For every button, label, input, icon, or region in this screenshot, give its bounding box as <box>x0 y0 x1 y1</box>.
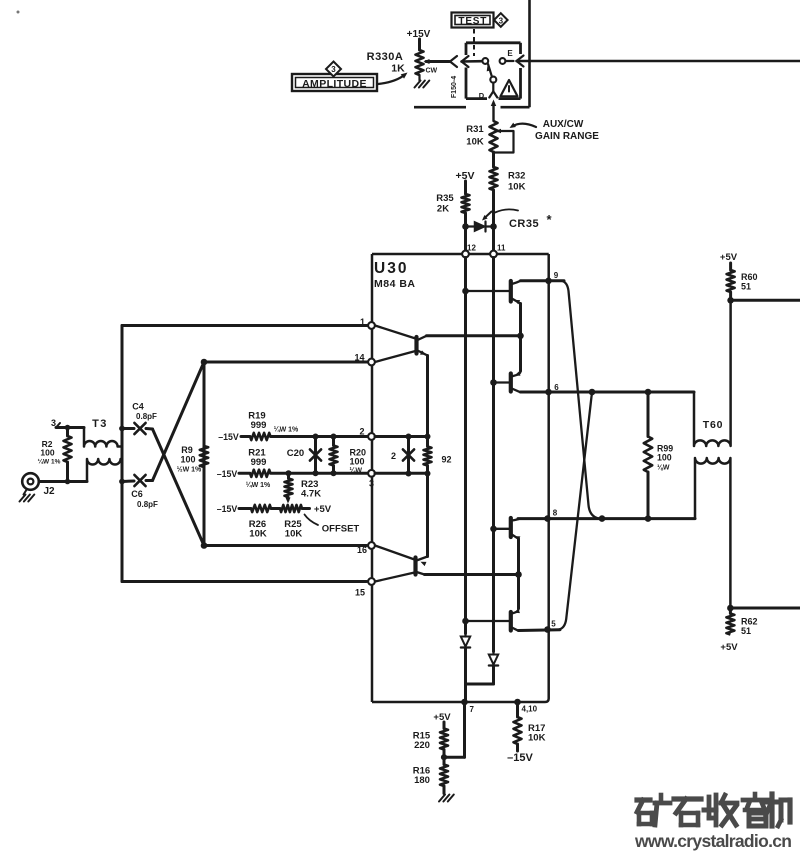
label +5V (R60) <box>720 252 738 263</box>
label R35 2K <box>436 193 454 215</box>
wire R31 to R32 <box>492 152 495 167</box>
resistor R32 <box>490 167 498 190</box>
node C20 bottom <box>313 470 319 476</box>
svg-text:0.8pF: 0.8pF <box>137 500 158 509</box>
svg-text:U30: U30 <box>374 260 408 277</box>
pin 14 <box>354 353 374 366</box>
svg-text:11: 11 <box>497 244 506 253</box>
svg-text:–15V: –15V <box>217 469 238 479</box>
wire C6 to upper fan <box>153 362 205 481</box>
svg-text:C4: C4 <box>132 402 144 412</box>
ground (R16) <box>439 795 454 802</box>
node CR35 cathode <box>490 223 497 230</box>
svg-text:+5V: +5V <box>720 252 738 263</box>
svg-text:–15V: –15V <box>507 752 533 764</box>
svg-text:999: 999 <box>251 457 267 468</box>
pin 1 <box>360 317 375 329</box>
svg-text:R330A: R330A <box>367 51 404 63</box>
label F150-4 <box>451 76 458 98</box>
label -15V (R19) <box>218 432 239 442</box>
svg-text:16: 16 <box>357 545 367 555</box>
label R9 100 1/2W 1% <box>177 445 202 474</box>
svg-text:3: 3 <box>369 479 374 489</box>
svg-text:12: 12 <box>467 244 476 253</box>
svg-text:+5V: +5V <box>720 642 738 653</box>
label +5V (R15) <box>433 712 451 723</box>
svg-text:–15V: –15V <box>217 504 238 514</box>
aux leader arrow <box>508 123 536 130</box>
svg-text:9: 9 <box>554 271 559 280</box>
wire +15V to R330A <box>418 39 421 50</box>
wire output line to right edge <box>517 60 800 63</box>
node Q-E base <box>462 618 469 625</box>
capacitor C20 <box>310 437 321 474</box>
node diag A join <box>599 515 606 522</box>
node R60 junction <box>727 297 734 304</box>
svg-text:1K: 1K <box>391 63 405 75</box>
resistor R21 <box>250 470 271 477</box>
label +5V (offset) <box>314 504 332 515</box>
svg-text:100: 100 <box>40 448 54 458</box>
svg-text:51: 51 <box>741 626 751 636</box>
pin 2 <box>359 427 374 440</box>
label R2 100 1/4W 1% <box>38 439 61 466</box>
wire R26-R25 <box>271 507 280 510</box>
diode D2 <box>489 652 498 685</box>
svg-text:¼W 1%: ¼W 1% <box>246 481 271 489</box>
svg-text:R62: R62 <box>741 617 758 627</box>
node cap2 bottom <box>406 471 412 477</box>
node C20 top <box>313 434 319 440</box>
wire Q-D emitter <box>517 539 520 609</box>
label -15V (R21) <box>217 469 238 479</box>
transformer T60 secondary <box>695 458 730 608</box>
wire Q-F emitter line <box>425 573 519 576</box>
wire R26 row <box>239 507 251 510</box>
node pin6-R99 <box>645 389 652 396</box>
label R19 999 <box>248 411 299 434</box>
svg-text:F150-4: F150-4 <box>451 76 458 98</box>
svg-text:¼W: ¼W <box>350 467 363 475</box>
label -15V (R26) <box>217 504 238 514</box>
svg-text:OFFSET: OFFSET <box>322 524 360 535</box>
svg-text:C6: C6 <box>131 489 143 499</box>
warning triangle <box>501 80 518 96</box>
resistor R20 <box>330 437 338 474</box>
wire Q-B emitter <box>519 304 522 372</box>
svg-text:¼W 1%: ¼W 1% <box>38 458 61 466</box>
svg-text:R60: R60 <box>741 272 758 282</box>
resistor R62 <box>726 608 734 635</box>
svg-text:T60: T60 <box>703 419 724 431</box>
svg-text:2K: 2K <box>437 204 449 215</box>
transistor Q-E <box>466 609 520 631</box>
capacitor 2 (internal) <box>403 437 414 474</box>
wire pin6 line <box>521 391 695 394</box>
node R20 bottom <box>331 470 337 476</box>
svg-text:R31: R31 <box>466 124 484 135</box>
resistor 92 (internal) <box>424 437 432 474</box>
svg-text:4.7K: 4.7K <box>301 489 321 500</box>
wire pin8 line <box>518 517 695 520</box>
pin 3 <box>368 470 375 489</box>
node emitter join B <box>515 571 522 578</box>
wire diagonal 9-to-8 <box>562 281 598 519</box>
resistor R2 <box>64 428 72 482</box>
label E <box>507 49 513 58</box>
CR35 select arrow <box>480 212 491 223</box>
wire R21 row <box>239 472 250 475</box>
label OFFSET <box>322 524 360 535</box>
svg-text:AUX/CW: AUX/CW <box>543 119 584 130</box>
svg-text:10K: 10K <box>528 733 546 744</box>
transformer T60 primary <box>694 300 731 446</box>
svg-text:+5V: +5V <box>433 712 451 723</box>
watermark crystalradio logo <box>637 794 790 826</box>
node rail-C6 <box>119 479 125 485</box>
transformer T3 primary <box>84 428 122 447</box>
pin 5 node <box>544 620 556 633</box>
+5V label (R35) <box>456 170 475 182</box>
label T3 <box>92 418 108 430</box>
ground (R330A) <box>415 75 430 88</box>
label AUX/CW GAIN RANGE <box>535 119 599 142</box>
wire C4 to lower fan <box>153 429 205 546</box>
pin 6 node <box>545 383 559 395</box>
resistor R60 <box>727 263 735 300</box>
svg-text:R32: R32 <box>508 171 525 182</box>
node r92 bottom <box>425 471 431 477</box>
diode CR35 <box>468 222 491 232</box>
wire pin3 inside <box>375 472 428 475</box>
svg-text:15: 15 <box>355 588 365 598</box>
svg-text:¼W 1%: ¼W 1% <box>274 426 299 434</box>
resistor R9 <box>200 446 208 467</box>
svg-text:T3: T3 <box>92 418 108 430</box>
wire pin7 down <box>444 702 465 757</box>
wire Q-F collector <box>426 473 429 556</box>
label C20 <box>287 448 304 459</box>
svg-text:92: 92 <box>442 455 452 465</box>
label 92 <box>442 455 452 465</box>
svg-text:10K: 10K <box>249 529 267 540</box>
ground (J2) <box>20 489 35 502</box>
svg-text:www.crystalradio.cn: www.crystalradio.cn <box>634 831 792 851</box>
svg-text:E: E <box>507 49 513 58</box>
label R60 51 <box>741 272 758 292</box>
svg-text:CW: CW <box>426 68 438 75</box>
potentiometer R330A <box>416 50 424 75</box>
resistor R99 <box>644 392 652 519</box>
node diag B join <box>589 389 596 396</box>
label U30 M84 BA <box>374 260 416 290</box>
svg-text:–15V: –15V <box>218 432 239 442</box>
wire J2 input <box>39 480 87 483</box>
connector chevron (E) <box>517 56 524 67</box>
label R21 999 <box>246 448 271 490</box>
wire output top <box>731 299 800 302</box>
label R330A 1K <box>367 51 405 75</box>
transistor Q-D <box>494 518 521 541</box>
pin 11 <box>490 244 506 258</box>
svg-text:3: 3 <box>331 65 336 74</box>
label 3 (wire tag) <box>51 418 60 428</box>
svg-text:1: 1 <box>360 317 365 327</box>
IC U30 box outline <box>372 254 549 702</box>
svg-text:TEST: TEST <box>458 16 487 27</box>
label C6 0.8pF <box>131 489 158 509</box>
node emitter join A <box>517 333 524 340</box>
svg-text:GAIN RANGE: GAIN RANGE <box>535 131 599 142</box>
label CW <box>426 68 438 75</box>
svg-text:8: 8 <box>553 509 558 518</box>
label R32 10K <box>508 171 526 193</box>
left rail (input) <box>121 326 124 582</box>
transistor Q-B <box>466 281 521 305</box>
label R15 220 <box>413 731 431 752</box>
label R26 10K <box>249 519 267 540</box>
node cap2 top <box>406 434 412 440</box>
label +5V (R62) <box>720 642 738 653</box>
resistor R19 <box>250 433 271 440</box>
svg-text:100: 100 <box>180 455 195 465</box>
svg-text:½W 1%: ½W 1% <box>177 466 202 474</box>
diamond 3 (amplitude) <box>326 62 341 77</box>
node R23 top <box>286 470 292 476</box>
wire diagonal 5-to-6 <box>559 392 593 630</box>
node R15-R16 <box>441 754 447 760</box>
pin 15 <box>355 578 375 597</box>
wire pin2 inside <box>375 435 428 438</box>
watermark url <box>634 831 792 851</box>
node R62 junction <box>727 605 734 612</box>
node r92 top <box>425 434 431 440</box>
svg-text:CR35: CR35 <box>509 218 539 230</box>
wire pin15 line <box>122 580 367 583</box>
svg-text:0.8pF: 0.8pF <box>136 412 157 421</box>
svg-text:14: 14 <box>354 353 364 363</box>
label R31 10K <box>466 124 484 148</box>
node R2 bottom <box>65 479 71 485</box>
speck <box>17 11 20 14</box>
svg-text:180: 180 <box>414 775 430 786</box>
node fan bottom <box>201 542 208 549</box>
pin 4,10 node <box>514 699 537 714</box>
svg-text:R9: R9 <box>181 445 193 455</box>
node fan top <box>201 359 208 366</box>
resistor R15 <box>440 722 448 757</box>
diamond 3 (test) <box>494 13 508 27</box>
node CR35 anode <box>462 223 469 230</box>
wire R19 row <box>241 435 250 438</box>
svg-text:AMPLITUDE: AMPLITUDE <box>302 78 367 90</box>
wire pin9 stub <box>521 279 565 282</box>
svg-text:2: 2 <box>391 451 396 461</box>
svg-text:3: 3 <box>499 16 504 25</box>
wire T3 top <box>56 426 84 429</box>
label R20 100 1/4W <box>350 448 367 475</box>
wire +5V to R35 <box>464 181 467 194</box>
CR35 leader <box>495 209 518 212</box>
wire output bottom <box>730 607 800 610</box>
resistor R35 <box>462 194 470 213</box>
label R17 10K <box>528 723 546 744</box>
+15V label <box>407 29 431 40</box>
R31 wiper loop <box>495 129 514 153</box>
svg-text:C20: C20 <box>287 448 304 459</box>
R23 wiper arrow <box>285 497 290 504</box>
wire Q-A emitter <box>426 356 429 437</box>
capacitor C6 <box>122 475 153 486</box>
switch contact D <box>489 83 497 98</box>
svg-text:J2: J2 <box>43 486 55 497</box>
svg-text:100: 100 <box>350 457 365 467</box>
node Q-D base <box>490 526 497 533</box>
node Q-C base <box>490 379 497 386</box>
diode D1 <box>461 634 470 703</box>
R330A wiper arrow <box>424 59 450 64</box>
node R2 top <box>65 425 71 431</box>
label -15V (R17) <box>507 752 533 764</box>
label R25 10K <box>284 519 302 540</box>
svg-text:6: 6 <box>554 383 559 392</box>
rail pin 12 <box>464 258 467 634</box>
label D <box>479 91 485 100</box>
svg-text:M84 BA: M84 BA <box>374 278 416 290</box>
wire from top edge to switch <box>528 0 531 61</box>
offset leader <box>305 515 319 526</box>
node pin8-R99 <box>645 515 652 522</box>
transistor Q-C <box>494 371 521 392</box>
contact E <box>500 58 514 64</box>
resistor R16 <box>440 757 448 793</box>
svg-text:51: 51 <box>741 282 751 292</box>
svg-text:7: 7 <box>470 705 475 714</box>
wire Q-A collector <box>427 334 521 337</box>
switch contact (lower) <box>490 77 496 83</box>
svg-text:D: D <box>479 91 485 100</box>
node Q-B base <box>462 288 469 295</box>
svg-text:999: 999 <box>251 420 267 431</box>
label R99 100 1/8W <box>657 444 673 472</box>
svg-text:10K: 10K <box>466 137 484 148</box>
transformer T3 secondary <box>87 459 122 482</box>
amplitude leader arrow <box>378 70 409 84</box>
transistor Q-F <box>375 546 428 582</box>
rail pin 11 <box>492 258 495 652</box>
wire D2 jog <box>466 683 494 686</box>
label CR35 * <box>509 212 553 230</box>
potentiometer R31 <box>490 121 498 152</box>
pin 7 node <box>461 699 474 714</box>
label 2 (cap) <box>391 451 396 461</box>
svg-text:220: 220 <box>414 740 430 751</box>
label R16 180 <box>413 766 430 787</box>
resistor R17 <box>514 702 522 751</box>
label C4 0.8pF <box>132 402 157 422</box>
wire R25 to +5V <box>302 507 310 510</box>
label J2 <box>43 486 55 497</box>
wire pin14 line <box>204 361 368 364</box>
node R20 top <box>331 434 337 440</box>
svg-text:R35: R35 <box>436 193 454 204</box>
wire R19 to pin2 <box>271 435 368 438</box>
pin 12 <box>462 244 476 258</box>
potentiometer R25 <box>280 505 302 512</box>
arrow into switch D <box>491 100 496 122</box>
svg-text:⅛W: ⅛W <box>657 465 670 472</box>
transistor Q-A <box>375 326 428 363</box>
wire R21 to pin3 <box>271 472 368 475</box>
switch wiper arm <box>485 64 492 76</box>
wire pin5 stub <box>519 628 561 632</box>
connector J2 <box>22 473 39 490</box>
connector chevrons (left) <box>450 56 482 67</box>
wire pin16 line <box>204 544 367 547</box>
label T60 <box>703 419 724 431</box>
node rail-C4 <box>119 426 125 432</box>
label AMPLITUDE <box>292 74 377 91</box>
svg-text:100: 100 <box>657 453 672 463</box>
wire R35 to CR35 <box>464 213 467 251</box>
switch contact (moving) <box>482 58 488 64</box>
wire pin1 line <box>122 324 368 327</box>
svg-text:4,10: 4,10 <box>522 705 538 714</box>
svg-text:5: 5 <box>551 620 556 629</box>
switch enclosure F150-4 <box>466 43 521 99</box>
label TEST <box>452 13 494 28</box>
pin 8 node <box>544 509 558 522</box>
wire R32 to pin 11 <box>492 190 495 251</box>
resistor R26 <box>251 505 271 512</box>
capacitor C4 <box>122 423 153 434</box>
fan rail (R9) <box>203 362 206 546</box>
dashed linkage line <box>473 29 475 56</box>
svg-text:+5V: +5V <box>314 504 332 515</box>
svg-text:10K: 10K <box>285 529 303 540</box>
pin 16 <box>357 542 375 555</box>
svg-text:10K: 10K <box>508 182 526 193</box>
wire lower return line <box>414 61 530 107</box>
label R23 4.7K <box>301 479 321 500</box>
resistor R23 <box>285 473 293 497</box>
pin 9 node <box>545 271 559 284</box>
label R62 51 <box>741 617 758 637</box>
